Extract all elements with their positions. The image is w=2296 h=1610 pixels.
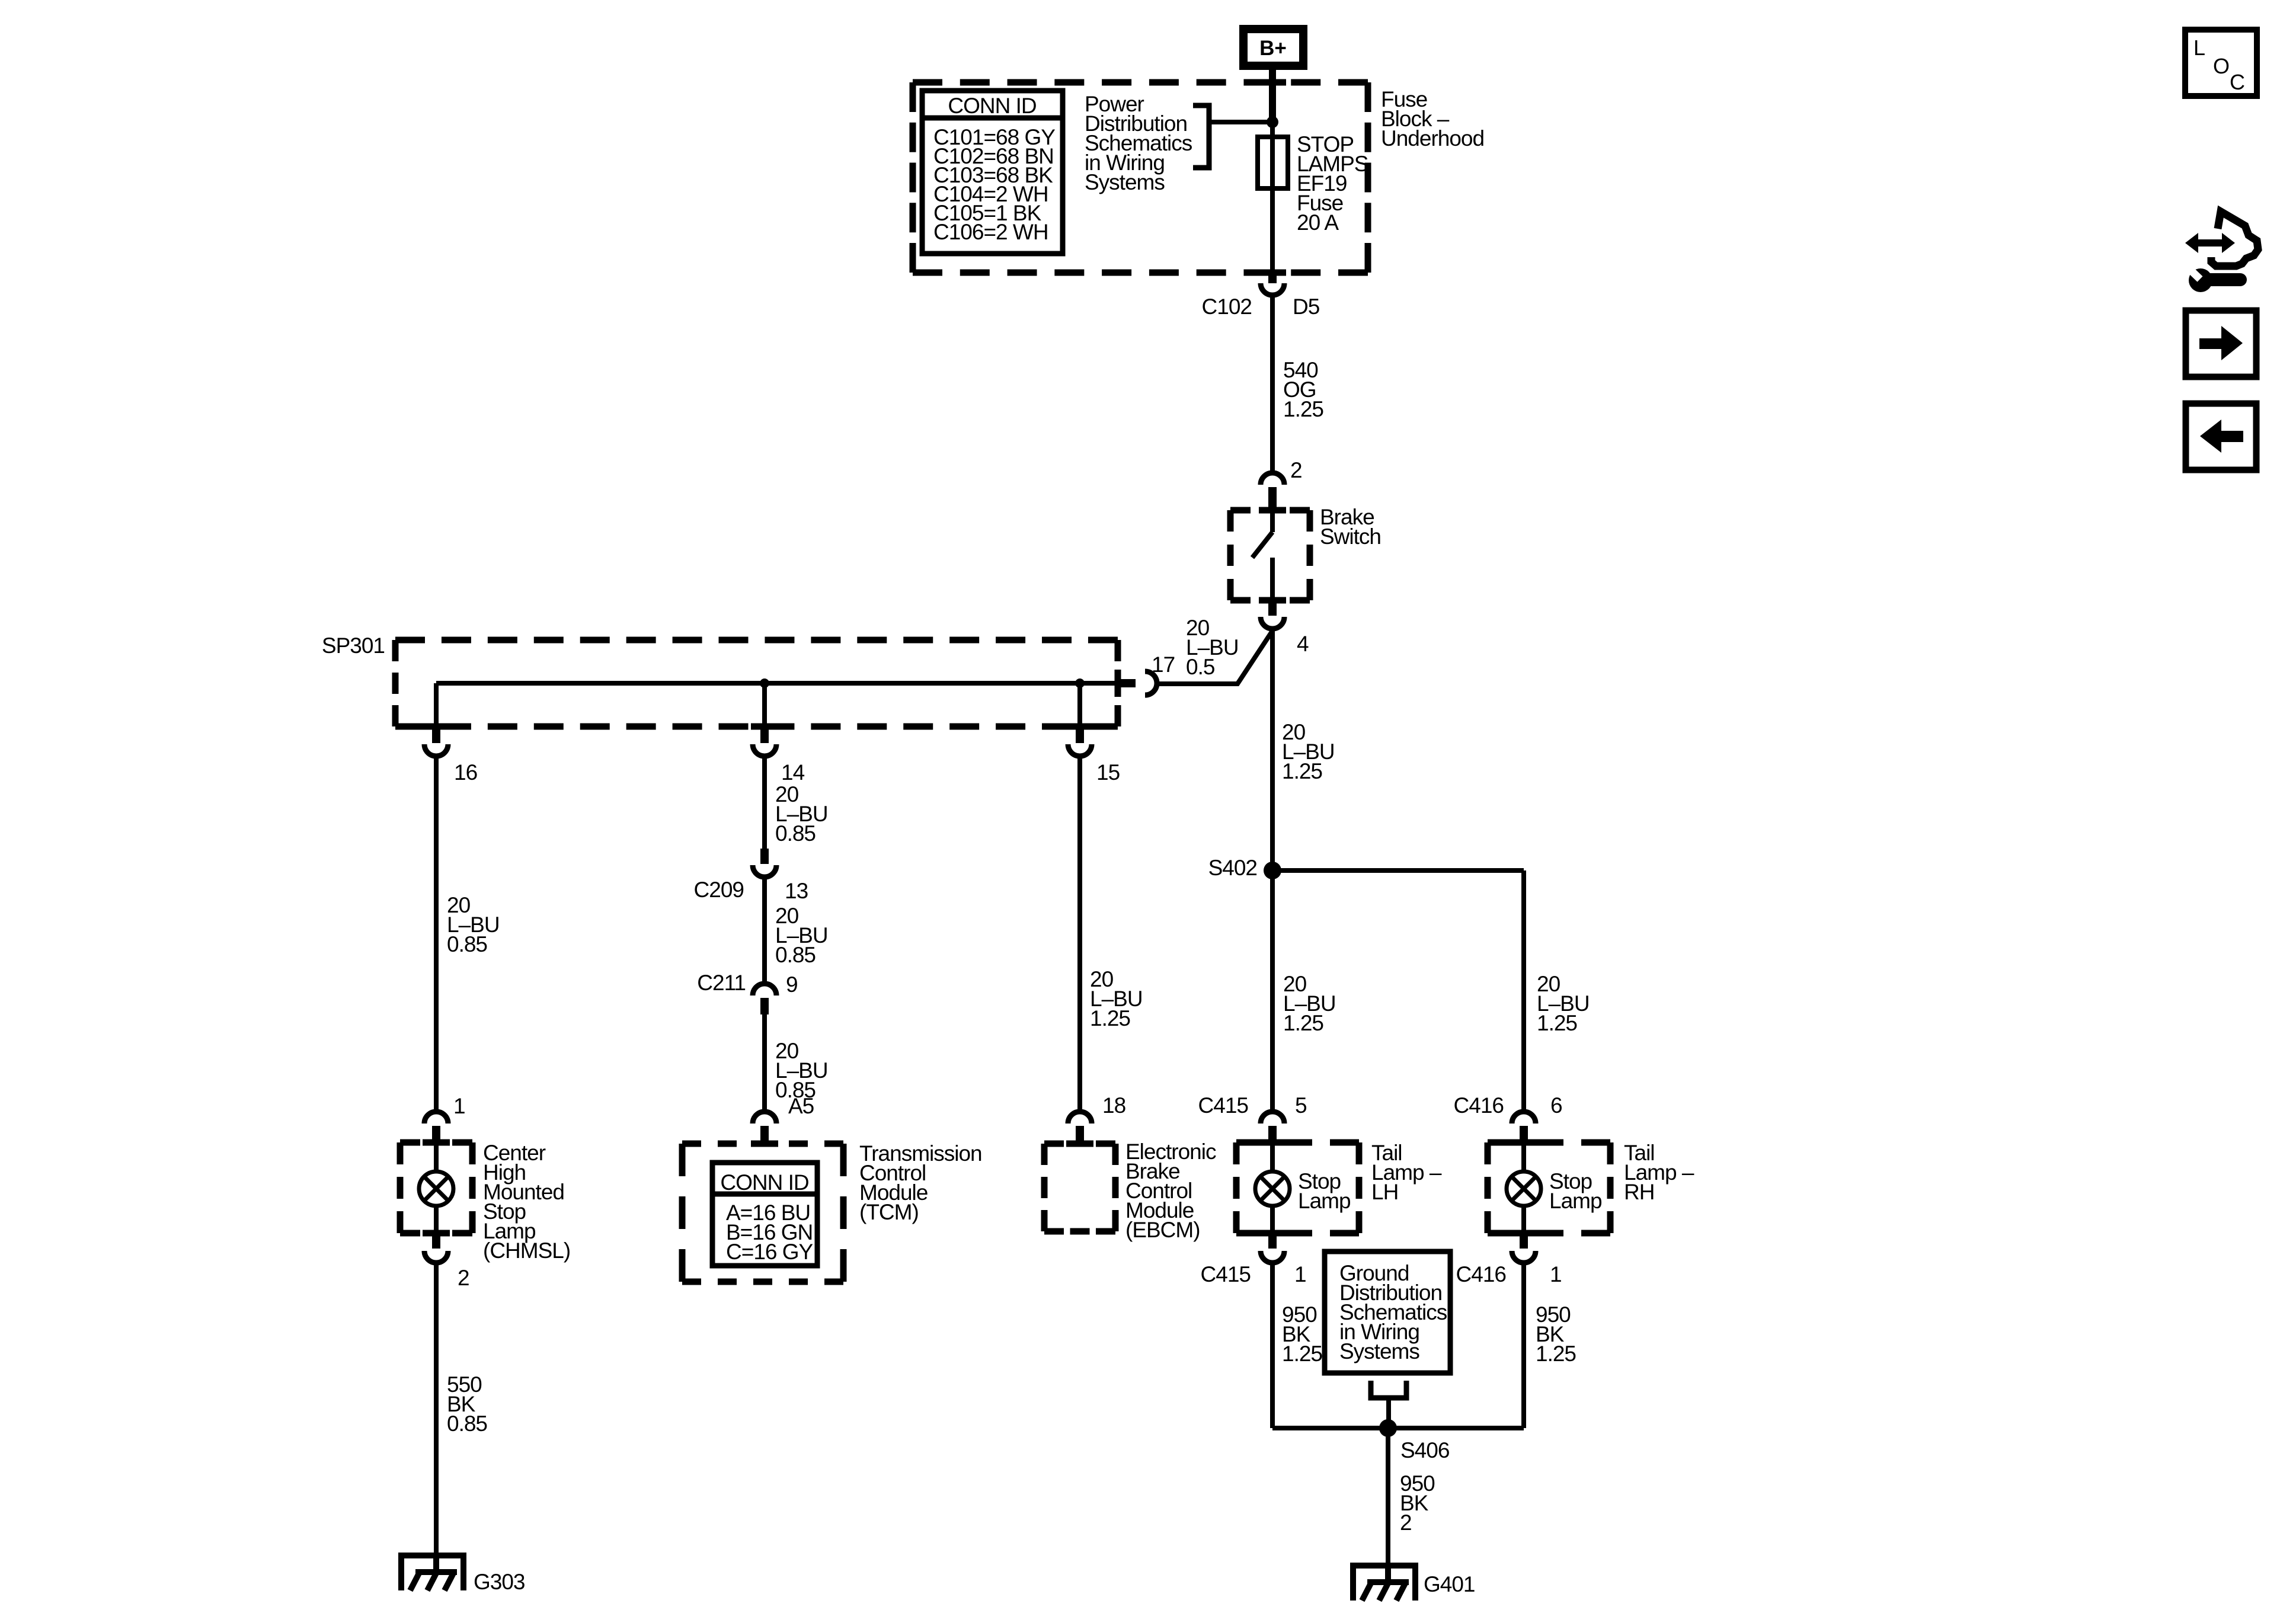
svg-text:C102: C102 bbox=[1202, 295, 1252, 319]
wire 20 L-BU 0.85 pin14 to C209 bbox=[762, 757, 767, 850]
male pin 14 of SP301 bbox=[760, 726, 769, 743]
svg-text:16: 16 bbox=[454, 760, 477, 785]
svg-text:2: 2 bbox=[1290, 458, 1302, 482]
wire through fuse bbox=[1270, 122, 1275, 273]
splice S406 bbox=[1379, 1419, 1397, 1437]
male terminal 9 below C211 bbox=[760, 998, 769, 1014]
wire 550 BK 0.85 to G303 bbox=[434, 1264, 439, 1555]
wire 20 L-BU 0.85 to CHMSL bbox=[434, 757, 439, 1112]
male pin 15 of SP301 bbox=[1076, 726, 1084, 743]
tail lamp LH dashed box bbox=[1236, 1142, 1359, 1233]
wire 20 L-BU 1.25 to C415 bbox=[1270, 870, 1275, 1112]
svg-text:Systems: Systems bbox=[1339, 1339, 1419, 1363]
male pin 2 of CHMSL bbox=[432, 1233, 440, 1249]
connector at SP301 pin 17 bbox=[1145, 671, 1157, 695]
svg-text:B+: B+ bbox=[1259, 37, 1287, 60]
male terminal 5 of tail lamp LH bbox=[1268, 1126, 1277, 1142]
bus junction at pin 15 drop bbox=[1075, 678, 1085, 688]
brake switch fixed contact bottom bbox=[1270, 558, 1275, 600]
tail lamp RH dashed box bbox=[1488, 1142, 1610, 1233]
svg-text:1: 1 bbox=[453, 1094, 465, 1118]
svg-text:C=16 GY: C=16 GY bbox=[726, 1240, 813, 1264]
svg-text:A5: A5 bbox=[788, 1094, 814, 1118]
svg-text:LH: LH bbox=[1371, 1180, 1398, 1204]
svg-text:5: 5 bbox=[1295, 1093, 1307, 1118]
male pin D5 of fuse block bbox=[1268, 273, 1277, 283]
CONN ID table (fuse block) bbox=[922, 91, 1063, 254]
svg-text:6: 6 bbox=[1550, 1093, 1562, 1118]
connector at TCM pin A5 bbox=[753, 1112, 776, 1124]
fuse STOP LAMPS EF19 20A bbox=[1258, 137, 1288, 188]
svg-text:2: 2 bbox=[458, 1266, 469, 1290]
ground G401 bbox=[1351, 1563, 1418, 1601]
stop lamp lead top bbox=[1521, 1142, 1526, 1173]
svg-text:1.25: 1.25 bbox=[1282, 1342, 1322, 1366]
EBCM dashed box bbox=[1044, 1144, 1115, 1231]
male terminal 13 into C209 bbox=[760, 849, 769, 864]
wire 20 L-BU 1.25 to EBCM bbox=[1077, 757, 1082, 1112]
ground bus wire to S406 bbox=[1272, 1426, 1524, 1430]
svg-text:C416: C416 bbox=[1456, 1262, 1506, 1286]
brake switch dashed box bbox=[1230, 510, 1310, 600]
svg-text:0.85: 0.85 bbox=[775, 943, 816, 967]
connector C416 terminal 6 bbox=[1512, 1112, 1536, 1124]
svg-text:2: 2 bbox=[1400, 1510, 1412, 1535]
svg-text:Switch: Switch bbox=[1320, 524, 1381, 549]
wire 20 L-BU 1.25 to S402 bbox=[1270, 630, 1275, 870]
svg-text:G303: G303 bbox=[474, 1570, 525, 1594]
LOC reference icon bbox=[2185, 30, 2257, 96]
stop lamp bulb LH bbox=[1255, 1172, 1290, 1206]
splice S402 bbox=[1264, 862, 1281, 879]
svg-text:1.25: 1.25 bbox=[1090, 1006, 1130, 1030]
wire B+ feed into fuse block bbox=[1269, 70, 1276, 123]
wire 20 L-BU 0.85 C209 to C211 bbox=[762, 878, 767, 981]
SP301 drop to pin 14 bbox=[762, 683, 767, 726]
TCM dashed box bbox=[682, 1144, 843, 1282]
svg-text:20 A: 20 A bbox=[1297, 210, 1339, 235]
svg-text:0.85: 0.85 bbox=[447, 932, 487, 956]
branch wire S402 to RH lamp bbox=[1272, 868, 1524, 873]
stop lamp lead bottom bbox=[1270, 1205, 1275, 1233]
male pin 18 of EBCM bbox=[1076, 1126, 1084, 1144]
connector at SP301 pin 14 bbox=[753, 744, 776, 756]
connector at CHMSL pin 1 bbox=[424, 1112, 448, 1124]
vehicle data / double-arrow icon bbox=[2185, 233, 2235, 253]
svg-text:C416: C416 bbox=[1454, 1093, 1504, 1118]
CONN ID table (TCM) bbox=[712, 1163, 817, 1266]
connector at CHMSL pin 2 bbox=[424, 1251, 448, 1263]
forward arrow icon bbox=[2186, 311, 2256, 377]
wire 540 OG 1.25 bbox=[1270, 296, 1275, 473]
wire 20 L-BU 0.85 C211 to TCM bbox=[762, 1014, 767, 1112]
svg-text:S406: S406 bbox=[1400, 1438, 1449, 1462]
svg-text:15: 15 bbox=[1096, 760, 1120, 785]
svg-text:L: L bbox=[2193, 36, 2205, 60]
svg-text:S402: S402 bbox=[1208, 856, 1257, 880]
svg-text:RH: RH bbox=[1624, 1180, 1654, 1204]
SP301 drop to pin 16 bbox=[434, 683, 439, 726]
brake switch blade (open) bbox=[1252, 532, 1272, 558]
wire 950 BK 1.25 from C415 bbox=[1270, 1264, 1275, 1428]
connector C415 terminal 5 bbox=[1261, 1112, 1284, 1124]
wire 20 L-BU 0.5 from pin 17 bbox=[1158, 632, 1272, 684]
svg-text:(CHMSL): (CHMSL) bbox=[483, 1238, 570, 1263]
stop lamp lead bottom bbox=[1521, 1205, 1526, 1233]
svg-text:SP301: SP301 bbox=[322, 633, 385, 658]
svg-text:17: 17 bbox=[1152, 652, 1175, 677]
svg-text:C106=2 WH: C106=2 WH bbox=[933, 220, 1048, 244]
svg-text:1.25: 1.25 bbox=[1283, 1011, 1323, 1035]
splice pack SP301 dashed box bbox=[395, 640, 1118, 726]
male terminal 6 of tail lamp RH bbox=[1520, 1126, 1528, 1142]
SP301 drop to pin 15 bbox=[1077, 683, 1082, 726]
svg-text:14: 14 bbox=[781, 760, 805, 785]
svg-text:G401: G401 bbox=[1424, 1572, 1475, 1596]
svg-text:C211: C211 bbox=[697, 971, 746, 995]
connector C415 terminal 1 bbox=[1261, 1251, 1284, 1263]
svg-text:C: C bbox=[2230, 70, 2245, 94]
wire 950 BK 2 to G401 bbox=[1386, 1428, 1390, 1566]
svg-text:C415: C415 bbox=[1201, 1262, 1251, 1286]
male pin A5 of TCM bbox=[760, 1126, 769, 1144]
svg-text:1.25: 1.25 bbox=[1536, 1342, 1576, 1366]
connector at EBCM pin 18 bbox=[1068, 1112, 1092, 1124]
svg-text:4: 4 bbox=[1297, 632, 1309, 656]
B+ battery terminal bbox=[1239, 25, 1307, 70]
connector at brake switch pin 2 bbox=[1261, 473, 1284, 485]
svg-text:0.5: 0.5 bbox=[1186, 655, 1215, 679]
svg-text:C209: C209 bbox=[694, 878, 744, 902]
wire 20 L-BU 1.25 to C416 bbox=[1521, 870, 1526, 1112]
fuse block - underhood dashed box bbox=[913, 82, 1368, 273]
male terminal 1 of tail lamp RH bbox=[1520, 1233, 1528, 1249]
svg-text:Lamp: Lamp bbox=[1298, 1189, 1351, 1213]
svg-text:0.85: 0.85 bbox=[447, 1411, 487, 1436]
svg-text:(EBCM): (EBCM) bbox=[1125, 1218, 1200, 1242]
wire 950 BK 1.25 from C416 bbox=[1521, 1264, 1526, 1428]
stop lamp lead top bbox=[1270, 1142, 1275, 1173]
connector at SP301 pin 15 bbox=[1068, 744, 1092, 756]
lamp lead top bbox=[434, 1142, 439, 1173]
svg-text:D5: D5 bbox=[1293, 295, 1320, 319]
CHMSL dashed box bbox=[400, 1142, 472, 1233]
svg-text:1: 1 bbox=[1550, 1262, 1562, 1286]
male terminal 1 of tail lamp LH bbox=[1268, 1233, 1277, 1249]
CHMSL bulb bbox=[419, 1172, 453, 1206]
ground distribution schematics reference box bbox=[1325, 1251, 1450, 1373]
junction of B+ feed and power distribution tap bbox=[1267, 116, 1278, 128]
connector C102 terminal D5 bbox=[1261, 283, 1284, 295]
male pin 16 of SP301 bbox=[432, 726, 440, 743]
svg-text:(TCM): (TCM) bbox=[859, 1200, 919, 1224]
svg-text:0.85: 0.85 bbox=[775, 821, 816, 846]
svg-text:Underhood: Underhood bbox=[1381, 126, 1484, 151]
wrench icon bbox=[2183, 263, 2240, 292]
connector at SP301 pin 16 bbox=[424, 744, 448, 756]
back arrow icon bbox=[2186, 404, 2256, 470]
svg-text:1.25: 1.25 bbox=[1283, 397, 1323, 421]
brake switch fixed contact top bbox=[1270, 510, 1275, 532]
svg-text:CONN ID: CONN ID bbox=[720, 1170, 808, 1195]
bus junction at pin 14 drop bbox=[760, 678, 769, 688]
svg-text:1.25: 1.25 bbox=[1537, 1011, 1577, 1035]
bracket from ground distribution box to S406 bbox=[1371, 1381, 1406, 1398]
male pin 2 of brake switch bbox=[1268, 487, 1277, 511]
connector C209 terminal 13 bbox=[753, 865, 776, 877]
lamp lead bottom bbox=[434, 1205, 439, 1233]
svg-text:C415: C415 bbox=[1198, 1093, 1249, 1118]
svg-text:CONN ID: CONN ID bbox=[948, 94, 1036, 118]
stop lamp bulb RH bbox=[1507, 1172, 1541, 1206]
SP301 bus wire bbox=[436, 681, 1118, 686]
svg-text:Lamp: Lamp bbox=[1549, 1189, 1602, 1213]
svg-text:13: 13 bbox=[785, 879, 808, 903]
svg-text:O: O bbox=[2213, 54, 2230, 78]
connector at brake switch pin 4 bbox=[1261, 617, 1284, 629]
male pin 4 of brake switch bbox=[1268, 600, 1277, 616]
ground G303 bbox=[399, 1553, 466, 1590]
connector C211 terminal 9 bbox=[753, 984, 776, 996]
svg-text:18: 18 bbox=[1102, 1093, 1125, 1118]
bracket to power distribution note bbox=[1193, 105, 1209, 168]
connector C416 terminal 1 bbox=[1512, 1251, 1536, 1263]
male pin 1 of CHMSL bbox=[432, 1126, 440, 1142]
svg-text:1: 1 bbox=[1294, 1262, 1306, 1286]
male pin 17 of SP301 bbox=[1118, 679, 1136, 687]
svg-text:Systems: Systems bbox=[1085, 170, 1165, 194]
svg-text:9: 9 bbox=[786, 972, 798, 997]
svg-text:1.25: 1.25 bbox=[1282, 759, 1322, 783]
